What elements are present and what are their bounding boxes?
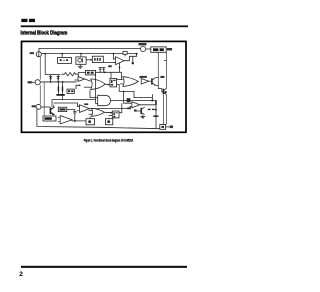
G3 top input from OR1 area: [90, 90, 98, 98]
label above P4: [139, 43, 147, 45]
label above T5: [127, 98, 131, 102]
caps under B3 left: [99, 67, 102, 72]
box B1 sync: [58, 57, 72, 63]
T1 top input stub: [113, 54, 115, 59]
D1 arrowhead: [79, 84, 81, 86]
drop from ramp bus into B6 top: [110, 72, 112, 78]
drop wire to B2: [80, 54, 82, 57]
post RT: [62, 82, 64, 95]
wire vref top bus: [39, 48, 140, 51]
label left of Q2: [134, 109, 137, 111]
node on ramp bus: [104, 71, 106, 73]
or gate G4: [92, 108, 105, 116]
shutdown node column: [153, 100, 158, 128]
label 50uA dashes: [148, 109, 155, 110]
transistor Q3: [50, 107, 54, 115]
oscillator glyph: [78, 58, 82, 62]
dot in C1: [88, 120, 91, 123]
blob2 in D1: [71, 90, 73, 92]
box C3 ground pin: [160, 125, 166, 130]
buffer T3: [141, 79, 149, 85]
label 1.1V below T1: [108, 65, 112, 67]
node comp: [132, 62, 134, 64]
rail A from TB: [157, 52, 159, 85]
Q1 collector to rail A: [156, 76, 159, 78]
or gate OR1: [91, 79, 105, 90]
label left below T5: [127, 107, 131, 109]
tick on rail B: [164, 60, 167, 62]
node vcc drop: [136, 53, 138, 55]
OR1 to latch B6: [105, 83, 110, 85]
wire T3 to Q1: [149, 80, 152, 82]
T4 output wire to T5: [90, 106, 132, 108]
C3 stub right: [166, 126, 170, 128]
Q1 emitter jog down: [156, 85, 164, 92]
box D2 50uA source: [58, 107, 67, 111]
pin label left of P2: [28, 81, 32, 83]
pin NI terminal P2: [35, 80, 40, 85]
T4 input marks: [77, 106, 79, 111]
box C2: [105, 119, 112, 125]
node on vcc bus above B1: [61, 53, 63, 55]
C2 stub up: [108, 118, 110, 119]
diagram outer border: [22, 41, 187, 132]
vcc drop to T1 output: [133, 54, 137, 57]
post CT: [57, 82, 59, 95]
pin label left of P3: [32, 105, 36, 107]
comparator T5: [132, 102, 140, 108]
T1 bottom to ramp bus: [119, 63, 121, 72]
text in D2: [59, 108, 65, 110]
box C1: [86, 119, 95, 125]
node on T6 output: [74, 120, 76, 122]
rail A continue down: [163, 95, 165, 125]
transistor Q2b: [163, 89, 166, 95]
pin VREF terminal P4: [140, 46, 145, 51]
G4 to B8: [105, 111, 113, 113]
label pin 12: [170, 126, 173, 129]
op-amp T6: [60, 116, 72, 125]
B6 output to OR2: [117, 79, 123, 81]
tick above node: [151, 94, 153, 100]
vertical x121.5 down: [121, 72, 123, 79]
wire diode feed bar: [45, 74, 60, 76]
speck in C3: [161, 126, 164, 128]
box B5 uv lockout: [86, 70, 96, 75]
glyphs in B3: [94, 58, 101, 61]
part number text top-left: [21, 19, 35, 22]
wire P4 to regulator box: [146, 48, 151, 50]
T2 lower input: [75, 79, 79, 81]
label right of Q1: [160, 76, 164, 78]
label right of TB: [167, 48, 172, 50]
node under T1: [119, 67, 121, 69]
node T1 stub: [113, 53, 115, 55]
node branch: [123, 91, 125, 93]
current source above T1: [123, 51, 127, 56]
diode D1a: [49, 75, 52, 82]
vertical x95.5 down to AND input: [96, 72, 98, 103]
wire mid bus y103: [54, 103, 80, 106]
pin label left of P1: [30, 52, 34, 54]
C1 stub up: [89, 116, 91, 118]
soft start wire P3 right: [41, 106, 50, 108]
node J4: [62, 81, 64, 83]
OR2 lower input: [120, 83, 123, 85]
svg-text:2: 2: [19, 271, 23, 278]
wire B5 to comparator: [78, 73, 85, 78]
text in TB: [153, 48, 158, 51]
box B2 oscillator: [76, 57, 86, 64]
glyph in B6: [111, 80, 116, 86]
arrowhead B2 to B3: [91, 59, 93, 61]
pin VCC terminal P1: [36, 52, 41, 57]
zigzag resistor R1: [62, 73, 79, 76]
text in B5: [87, 72, 90, 74]
T2 output to OR1: [85, 79, 91, 81]
arrowhead into B6: [108, 84, 110, 86]
node J1: [44, 53, 46, 55]
big box top wire: [52, 99, 96, 101]
blobs in D1: [68, 90, 70, 92]
wire drop to diode bar: [44, 54, 46, 75]
ground under B2: [78, 64, 83, 68]
transistor Q2 shutdown: [141, 107, 144, 114]
wire vcc bus: [42, 53, 137, 55]
T1 output elbow: [124, 56, 133, 64]
or gate OR2: [123, 77, 139, 87]
branch to T5 top input: [124, 91, 132, 103]
big box left edge: [51, 100, 53, 107]
vertical trunk P1 to P2: [39, 57, 41, 80]
G3 output wire: [110, 100, 156, 102]
drop wire to B1: [61, 54, 63, 58]
arrow into P2: [31, 81, 35, 83]
comparator T2: [78, 77, 85, 82]
box B3 flip flop: [92, 56, 103, 62]
pin SS terminal P3: [36, 104, 41, 109]
box B8 latch2: [112, 111, 119, 118]
label above T3: [139, 76, 146, 78]
node J2: [50, 81, 52, 83]
box D3 shutdown logic: [43, 116, 56, 121]
box D1 discharge: [67, 89, 74, 93]
T1 lower input wire: [104, 61, 116, 63]
T6 output wire: [72, 120, 86, 121]
svg-text:Figure 1. Functional block dia: Figure 1. Functional block diagram of KA…: [84, 138, 134, 142]
stub bar to lower wire: [62, 96, 64, 100]
diode D1b: [57, 75, 60, 82]
wire P3 down to ground rail: [37, 109, 160, 129]
op-amp T4: [80, 105, 90, 113]
svg-text:Internal Block Diagram: Internal Block Diagram: [20, 30, 67, 36]
dot in C2: [107, 120, 110, 123]
B8 side stub: [109, 115, 113, 117]
Q3 collector stub: [53, 105, 55, 108]
footer rule: [21, 266, 187, 268]
node G3 out right: [151, 100, 153, 102]
G4 input stub lower: [89, 113, 93, 115]
transistor Q1: [152, 77, 156, 85]
node on vcc bus above B2: [80, 53, 82, 55]
wire reference bus lower: [41, 81, 77, 83]
OR1 bottom input wire: [84, 86, 92, 88]
caps under B3 right: [102, 67, 105, 72]
wire D2 to cap: [67, 108, 75, 110]
cap C ss: [73, 109, 76, 121]
B6 lower output path: [117, 85, 153, 98]
G4 input stubs: [89, 110, 93, 112]
node J3: [57, 81, 59, 83]
arrow B2 to B3: [86, 59, 92, 61]
vertical line x44: [43, 82, 45, 115]
box B6 pwm latch: [110, 78, 117, 87]
glyph in B8: [113, 112, 117, 117]
Q2 base stub: [137, 110, 142, 112]
bar under posts: [56, 94, 64, 96]
text2 in B5: [91, 72, 94, 74]
and gate G3: [98, 95, 111, 105]
wire ramp bus: [96, 71, 122, 73]
text in D3: [44, 117, 51, 120]
B8 output path: [119, 103, 122, 113]
osc glyph stem: [82, 58, 84, 62]
rail B continue down: [165, 95, 167, 125]
D1 elbow arrow: [76, 85, 79, 89]
header rule: [21, 25, 188, 27]
ground under Q2: [140, 115, 145, 119]
box TB reference regulator: [151, 47, 166, 52]
error amp T1: [116, 57, 125, 65]
glyphs in B1: [60, 59, 68, 61]
T1 input marks: [113, 59, 115, 63]
T6 input marks: [58, 117, 60, 122]
arrowhead into B8: [111, 112, 113, 114]
label above T4: [84, 103, 88, 105]
rail B from TB: [165, 52, 167, 88]
T5 output: [140, 104, 156, 106]
vertical trunk P2 to P3: [39, 85, 41, 104]
